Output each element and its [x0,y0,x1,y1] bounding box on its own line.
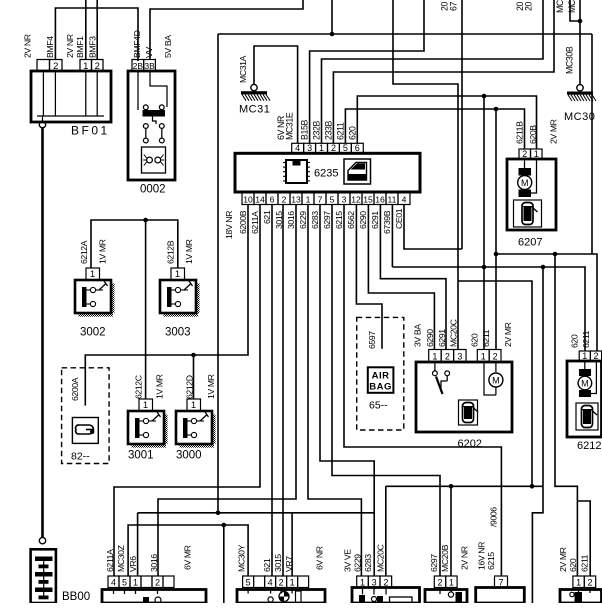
svg-text:6215: 6215 [486,552,496,570]
IC icon 6235 [286,160,307,183]
wire CE01 [404,205,462,250]
wire BMF4 BF01.2 to 0002.2B [55,8,138,61]
svg-text:MC20C: MC20C [376,544,386,572]
wire 6739B [391,205,393,268]
wire VR7 stub [291,513,293,576]
svg-text:MC30Z: MC30Z [116,544,126,572]
wire BMF1 to top [85,0,87,60]
junction 6211/6202 [494,107,499,112]
pin stubs into box [113,588,115,595]
svg-text:2: 2 [587,577,592,587]
junction [494,252,499,257]
connector C2 [243,576,309,588]
svg-text:2V NR: 2V NR [23,34,33,58]
motor M 6212 [584,361,586,369]
svg-text:1: 1 [360,577,365,587]
svg-text:2: 2 [95,61,100,72]
relay internals 0002 [137,71,139,110]
bulb icon [279,592,289,602]
wire BMF3 to top [96,0,98,60]
svg-text:620: 620 [470,333,480,347]
wire 6229 [308,205,361,577]
svg-text:2V MR: 2V MR [549,119,559,144]
svg-text:2V NR: 2V NR [460,546,470,570]
svg-text:2: 2 [437,577,442,587]
svg-text:15: 15 [363,194,373,204]
svg-text:1: 1 [83,61,88,72]
svg-text:6283: 6283 [363,554,373,572]
wire bus y34 [218,33,592,35]
svg-text:6: 6 [270,194,275,204]
wire 6200B [85,205,248,406]
svg-text:82--: 82-- [71,451,90,463]
junction [541,265,546,270]
svg-text:2: 2 [445,351,450,361]
svg-text:0002: 0002 [140,184,166,196]
wire from top to CE01 [461,0,463,249]
svg-text:M: M [581,379,589,389]
svg-text:1: 1 [133,577,138,587]
svg-text:MC30: MC30 [555,0,565,13]
svg-text:10: 10 [243,194,253,204]
wire to 3001 [145,220,147,399]
wire MC20B pin stub [450,486,452,576]
svg-text:1: 1 [582,351,587,361]
svg-text:3V BA: 3V BA [413,324,423,347]
svg-text:7: 7 [318,194,323,204]
svg-text:3: 3 [307,143,312,153]
svg-text:1: 1 [175,269,180,280]
ground MC31 [241,91,267,94]
svg-text:6212C: 6212C [134,375,144,399]
car icon 6202 [459,400,478,425]
svg-text:6200A: 6200A [70,377,80,401]
svg-text:12: 12 [351,194,361,204]
wire drop x543 jog to bottom [532,267,543,603]
svg-text:BF01: BF01 [71,124,110,138]
svg-text:18V NR: 18V NR [224,211,234,239]
svg-text:620: 620 [348,126,358,140]
wire 6211 branch to 6202.2 [495,109,497,349]
svg-text:6297: 6297 [429,554,439,572]
svg-text:6211: 6211 [580,554,590,572]
svg-text:3001: 3001 [128,450,154,462]
wire 3015 [282,205,284,577]
svg-text:4: 4 [111,577,116,587]
svg-text:BB00: BB00 [62,591,90,603]
junction MC30 [222,523,227,528]
svg-text:1: 1 [449,577,454,587]
speaker 3003 [164,313,199,317]
svg-text:5: 5 [343,143,348,153]
junction 6212 [143,218,148,223]
wire to 3000 [193,355,195,399]
svg-text:5: 5 [246,577,251,587]
wire 6290 [368,205,434,350]
connector C6 (1 3 2) [357,576,392,588]
wire MC31E 6235.4 to MC31 [254,46,298,143]
svg-text:6V MR: 6V MR [183,545,193,570]
svg-text:6211: 6211 [336,122,346,140]
svg-text:2: 2 [282,194,287,204]
motor unit 6212 [567,361,602,437]
svg-text:2B: 2B [133,61,144,71]
svg-text:16: 16 [375,194,385,204]
junction [553,252,558,257]
svg-text:3003: 3003 [165,327,191,339]
key icon [72,418,98,444]
wire 6283 [320,205,374,577]
motor M 6207 [524,159,526,168]
svg-text:14: 14 [255,194,265,204]
unit 6202 [416,362,512,432]
svg-text:4: 4 [402,194,407,204]
svg-text:65--: 65-- [369,400,388,412]
svg-text:6211B: 6211B [515,121,525,144]
unit 6235 [235,153,420,192]
svg-text:6212D: 6212D [185,375,195,399]
svg-text:1V MR: 1V MR [155,374,165,399]
svg-text:BMF1: BMF1 [75,36,85,58]
node battery top [39,537,45,543]
svg-text:2: 2 [155,577,160,587]
pin stubs into box [247,588,249,594]
wire 233B 6235.2 to top [333,0,554,143]
wire drop x555 [555,254,577,576]
svg-text:2: 2 [53,61,58,72]
ground MC30 [567,92,593,95]
svg-text:MC30: MC30 [567,0,577,13]
relay 0002 [128,71,175,180]
svg-text:7: 7 [498,577,503,587]
wire 6211 branch to 6212.2 [496,254,597,351]
svg-text:233B: 233B [324,121,334,140]
svg-text:6211A: 6211A [105,549,115,572]
connector C1 (bottom left) [108,576,174,588]
svg-text:MC31A: MC31A [238,55,248,83]
lamp icon box 0002 [142,147,166,173]
svg-text:621: 621 [262,210,272,224]
svg-text:1V MR: 1V MR [184,239,194,264]
dashed box 6200A (82--) [62,368,110,464]
svg-text:6215: 6215 [334,211,344,229]
node MC31A [251,84,257,90]
svg-text:621: 621 [262,558,272,572]
svg-text:1: 1 [534,149,539,159]
pin stubs into box [362,588,364,595]
speaker 3001 [132,444,167,448]
svg-text:6202: 6202 [458,438,482,450]
svg-text:6200B: 6200B [238,210,248,234]
svg-text:1: 1 [306,194,311,204]
svg-text:2: 2 [383,577,388,587]
svg-text:1: 1 [432,351,437,361]
svg-text:5: 5 [122,577,127,587]
wire 3016 [158,205,296,577]
svg-text:3: 3 [342,194,347,204]
svg-text:5V BA: 5V BA [163,35,173,58]
svg-text:6290: 6290 [358,211,368,229]
svg-text:/9006: /9006 [489,507,499,527]
svg-text:6597: 6597 [367,331,377,349]
svg-text:1: 1 [481,351,486,361]
svg-text:4: 4 [268,577,273,587]
svg-text:MC30: MC30 [564,111,595,123]
wire 620 branch to 6212.1 [392,267,585,351]
svg-text:CE01: CE01 [394,208,404,229]
svg-text:232B: 232B [312,121,322,140]
pin stubs into box [578,588,580,594]
svg-text:6212B: 6212B [166,240,176,264]
wire battery from BF01 [41,128,44,538]
svg-text:3: 3 [457,351,462,361]
svg-text:MC20B: MC20B [440,544,450,572]
svg-text:2V MR: 2V MR [558,547,568,572]
junction x332 bus34 [330,32,335,37]
svg-text:13: 13 [291,194,301,204]
motor unit 6207 [507,159,556,230]
node MC30B circle [577,85,583,91]
wire MC20B horizontal y487 [386,485,543,487]
svg-text:6207: 6207 [518,237,542,249]
svg-text:6297: 6297 [322,211,332,229]
svg-text:3002: 3002 [80,327,106,339]
wire off-page x223.8 [223,525,225,603]
svg-text:VR6: VR6 [128,556,138,572]
svg-text:3015: 3015 [274,211,284,229]
wire drop left x218 [217,34,219,513]
svg-text:11: 11 [388,194,397,204]
wire 6211A [114,205,260,577]
wire stub from top x332 [331,0,333,34]
svg-text:620: 620 [570,334,580,348]
svg-text:6212A: 6212A [79,240,89,264]
svg-text:3015: 3015 [273,554,283,572]
svg-text:620: 620 [568,558,578,572]
svg-text:5: 5 [330,194,335,204]
wire 6215 [344,205,501,577]
svg-text:6211: 6211 [481,329,491,347]
svg-text:BAG: BAG [369,382,392,393]
speaker 3000 [180,444,215,448]
svg-text:6291: 6291 [370,211,380,229]
door icon 6235 [344,159,371,184]
car icon 6212 [576,403,598,430]
pin stubs into box [439,588,441,595]
junction MC30 wires [578,19,583,24]
svg-text:3016: 3016 [286,211,296,229]
svg-text:MC20C: MC20C [449,319,459,347]
connector BF01 [31,71,111,122]
car icon 6207 [514,200,542,227]
battery BB00 [31,549,56,603]
svg-text:BMF3: BMF3 [88,36,98,58]
svg-text:2: 2 [493,351,498,361]
svg-text:2V MR: 2V MR [503,322,513,347]
svg-text:3000: 3000 [176,450,202,462]
motor M 6202 [495,362,497,372]
svg-text:1V MR: 1V MR [98,239,108,264]
svg-text:3B: 3B [144,61,155,71]
svg-text:2: 2 [522,149,527,159]
wire from top jog to 6202.3 MC20C [393,0,458,349]
svg-text:MC30B: MC30B [565,46,575,74]
wire drop right x592 [591,34,593,254]
svg-text:MC31E: MC31E [284,112,294,140]
wire 6297 [332,205,440,577]
svg-text:67: 67 [449,2,459,11]
svg-text:6235: 6235 [314,168,338,180]
svg-text:BMF4: BMF4 [45,36,55,58]
junction VR6/bus [216,511,221,516]
svg-text:3V VE: 3V VE [343,549,353,572]
svg-text:6229: 6229 [298,211,308,229]
wire 6212A/6212B [91,220,178,268]
svg-text:2: 2 [279,577,284,587]
wire MC20C C6.2 stub [385,486,387,576]
junction 3000 [191,353,196,358]
svg-text:2: 2 [331,143,336,153]
wire B15B 6235.3 to top [310,0,424,143]
svg-text:6211: 6211 [581,330,591,348]
speaker 3002 [79,313,114,317]
svg-text:6283: 6283 [310,211,320,229]
svg-text:1: 1 [576,577,581,587]
svg-text:6562: 6562 [346,211,356,229]
wire 620 6235.6 to 6207.1 [357,96,536,149]
wire MC20C branch to bottom [458,281,532,486]
svg-text:1: 1 [143,400,148,411]
wire 620 branch to 6202.1 [483,96,485,349]
wire 6562 to airbag [356,205,382,349]
svg-text:M: M [492,376,500,386]
svg-text:4: 4 [295,143,300,153]
svg-text:AIR: AIR [372,371,390,382]
junction MC20B [449,484,454,489]
connector C5 [573,576,596,588]
wire 621 [271,205,273,577]
svg-text:B15B: B15B [300,120,310,140]
connector C4 pin 7 [495,576,508,588]
junction [482,265,487,270]
wire MC30 stub from top [570,0,580,21]
svg-text:6739B: 6739B [382,210,392,234]
svg-text:16V NR: 16V NR [477,542,487,570]
svg-text:3016: 3016 [149,554,159,572]
svg-text:3: 3 [372,577,377,587]
svg-text:VV: VV [144,47,154,58]
svg-text:1: 1 [290,577,295,587]
wire MC30B from top to ground [579,0,581,85]
wire 6211 6235.5 to 6207.2 [345,109,524,149]
connector C3 [434,576,457,588]
AIR BAG logo [368,367,394,393]
svg-text:M: M [521,178,529,188]
svg-text:6: 6 [355,143,360,153]
svg-text:620B: 620B [528,125,538,144]
dashed box 65-- airbag [357,317,404,430]
svg-text:1: 1 [191,400,196,411]
wire C5 pin2 stub [577,501,590,576]
switch contacts 6202 [434,362,436,371]
svg-text:20: 20 [524,2,534,11]
svg-text:1: 1 [90,269,95,280]
svg-text:6212: 6212 [577,440,601,452]
junction 620/6202 [482,94,487,99]
svg-text:6229: 6229 [353,554,363,572]
svg-text:1V MR: 1V MR [206,374,216,399]
svg-text:2V NR: 2V NR [65,34,75,58]
svg-text:MC30Y: MC30Y [237,544,247,572]
svg-text:2: 2 [593,351,598,361]
svg-text:1: 1 [319,143,324,153]
wire 232B 6235.1 to top [322,0,544,143]
svg-text:6V NR: 6V NR [315,546,325,570]
wire 6291 [380,205,446,350]
svg-text:MC31: MC31 [239,104,270,116]
wire MC30Z/MC30Y [128,525,248,576]
svg-text:BMF4D: BMF4D [132,30,142,58]
wire VV 0002.3B to top edge [150,0,303,60]
junction [530,484,535,489]
wire VR6 horizontal [138,512,375,514]
svg-text:6211A: 6211A [250,211,260,234]
